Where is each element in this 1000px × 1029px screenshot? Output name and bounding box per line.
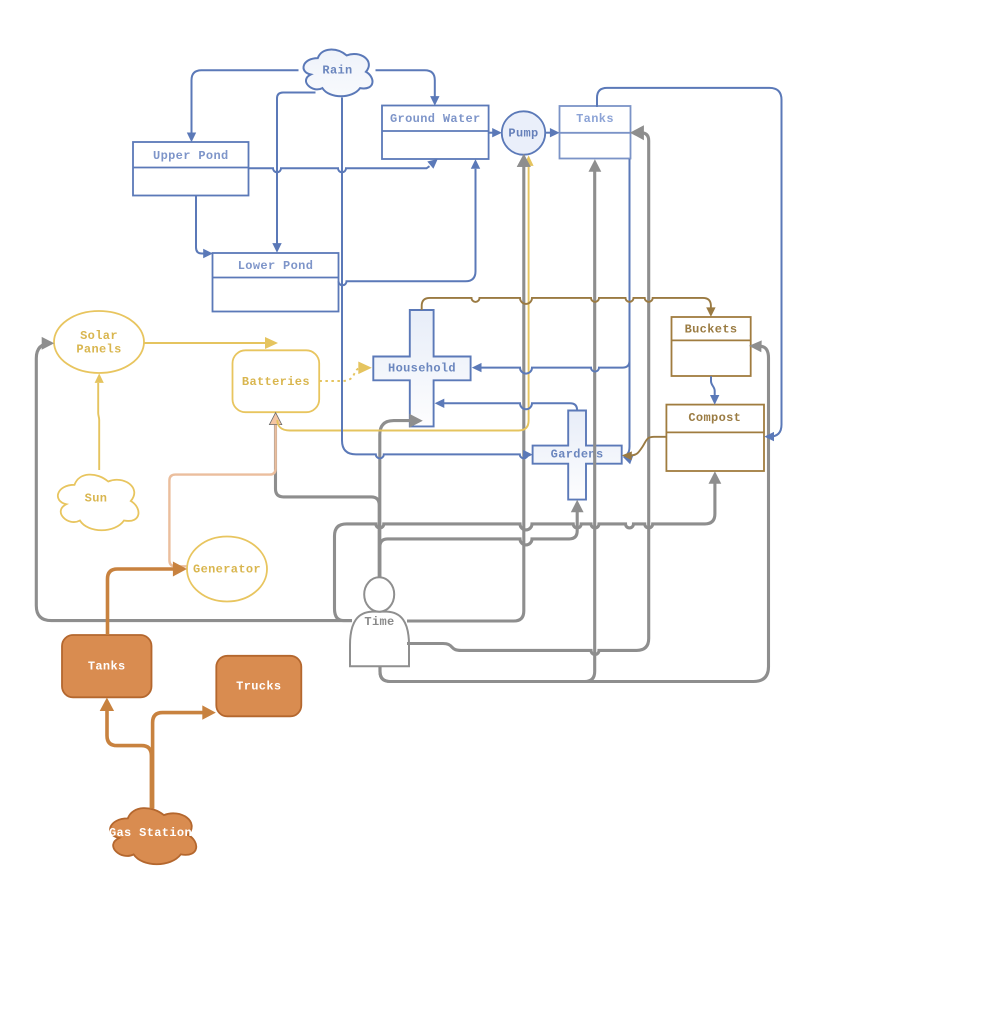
- node Solar Panels (ellipse): [54, 311, 144, 373]
- svg-text:Panels: Panels: [76, 343, 121, 357]
- svg-text:Tanks: Tanks: [88, 660, 126, 674]
- svg-text:Time: Time: [364, 615, 394, 629]
- svg-text:Tanks: Tanks: [576, 112, 614, 126]
- svg-text:Rain: Rain: [322, 64, 352, 78]
- node Tanks (fuel): [62, 635, 152, 697]
- node Time (person): [350, 577, 409, 666]
- wire Time->Buckets: [380, 346, 769, 681]
- node Generator (ellipse): [187, 537, 267, 602]
- wire Time->Batteries: [276, 424, 380, 578]
- node Compost: [666, 405, 764, 471]
- wire Lower Pond->Ground Water: [339, 169, 476, 285]
- wire Time->Solar Panels: [36, 343, 352, 620]
- wire Gas Station->Trucks: [153, 713, 203, 809]
- wire Buckets->Compost: [711, 376, 715, 395]
- wire Solar Panels->Batteries: [144, 342, 265, 344]
- wire Batteries->Household (dashed): [319, 368, 358, 381]
- wire Pump->Tanks (water): [545, 132, 550, 134]
- wire Ground Water->Pump: [489, 132, 493, 134]
- wire Rain->Lower Pond: [277, 93, 316, 244]
- wire Tanks (water)->Compost: [597, 88, 782, 437]
- wire Rain->Upper Pond: [192, 70, 299, 133]
- node Lower Pond: [213, 253, 339, 312]
- svg-text:Trucks: Trucks: [236, 680, 281, 694]
- wire Rain->Ground Water: [376, 70, 435, 96]
- node Tanks (water): [560, 106, 631, 159]
- wire Tanks (water)->Gardens: [627, 159, 629, 454]
- wire Generator->Batteries (salmon): [169, 424, 275, 566]
- wire Batteries->Pump: [277, 166, 528, 431]
- wire Upper Pond->Ground Water: [249, 166, 430, 172]
- wire Time->Gardens: [380, 511, 577, 578]
- node Trucks: [216, 656, 301, 717]
- svg-text:Buckets: Buckets: [685, 323, 738, 337]
- svg-text:Sun: Sun: [85, 492, 108, 506]
- wire Time->Tanks (water, right): [407, 133, 649, 655]
- node Gas Station (cloud): [109, 808, 196, 864]
- node Rain (cloud): [304, 50, 373, 97]
- node Gardens (cross): [533, 411, 622, 500]
- wire Time->Pump arrowhead overlay: [517, 154, 531, 167]
- wire Time->Tanks (water, bottom): [380, 170, 595, 682]
- wire Gardens->Household: [444, 403, 577, 410]
- svg-text:Ground Water: Ground Water: [390, 112, 481, 126]
- wire Time->Compost: [335, 482, 715, 621]
- wire Time->Pump: [407, 167, 524, 622]
- node Ground Water: [382, 106, 489, 160]
- svg-text:Generator: Generator: [193, 563, 261, 577]
- svg-text:Solar: Solar: [80, 329, 118, 343]
- wire Tanks (fuel)->Generator: [108, 569, 174, 635]
- node Household (cross): [373, 310, 470, 426]
- wire Time->Household: [380, 421, 411, 578]
- svg-text:Lower Pond: Lower Pond: [238, 259, 314, 273]
- wire Rain->Gardens: [342, 98, 528, 459]
- svg-text:Gas Station: Gas Station: [109, 826, 192, 840]
- wire Upper Pond->Lower Pond: [196, 196, 204, 254]
- svg-text:Compost: Compost: [688, 411, 741, 425]
- svg-text:Batteries: Batteries: [242, 375, 310, 389]
- wire Gas Station->Tanks (fuel): [107, 710, 151, 809]
- node Buckets: [672, 317, 751, 376]
- svg-text:Pump: Pump: [508, 127, 538, 141]
- svg-text:Upper Pond: Upper Pond: [153, 149, 229, 163]
- wire Compost->Gardens: [631, 437, 666, 456]
- node Batteries: [233, 350, 320, 412]
- wire Household->Buckets: [422, 298, 711, 310]
- node Pump: [502, 111, 545, 154]
- wire Sun->Solar Panels: [98, 383, 99, 470]
- node Upper Pond: [133, 142, 249, 196]
- svg-text:Household: Household: [388, 361, 456, 375]
- wire Tanks (water)->Household: [481, 159, 629, 374]
- node Sun (cloud): [58, 475, 139, 531]
